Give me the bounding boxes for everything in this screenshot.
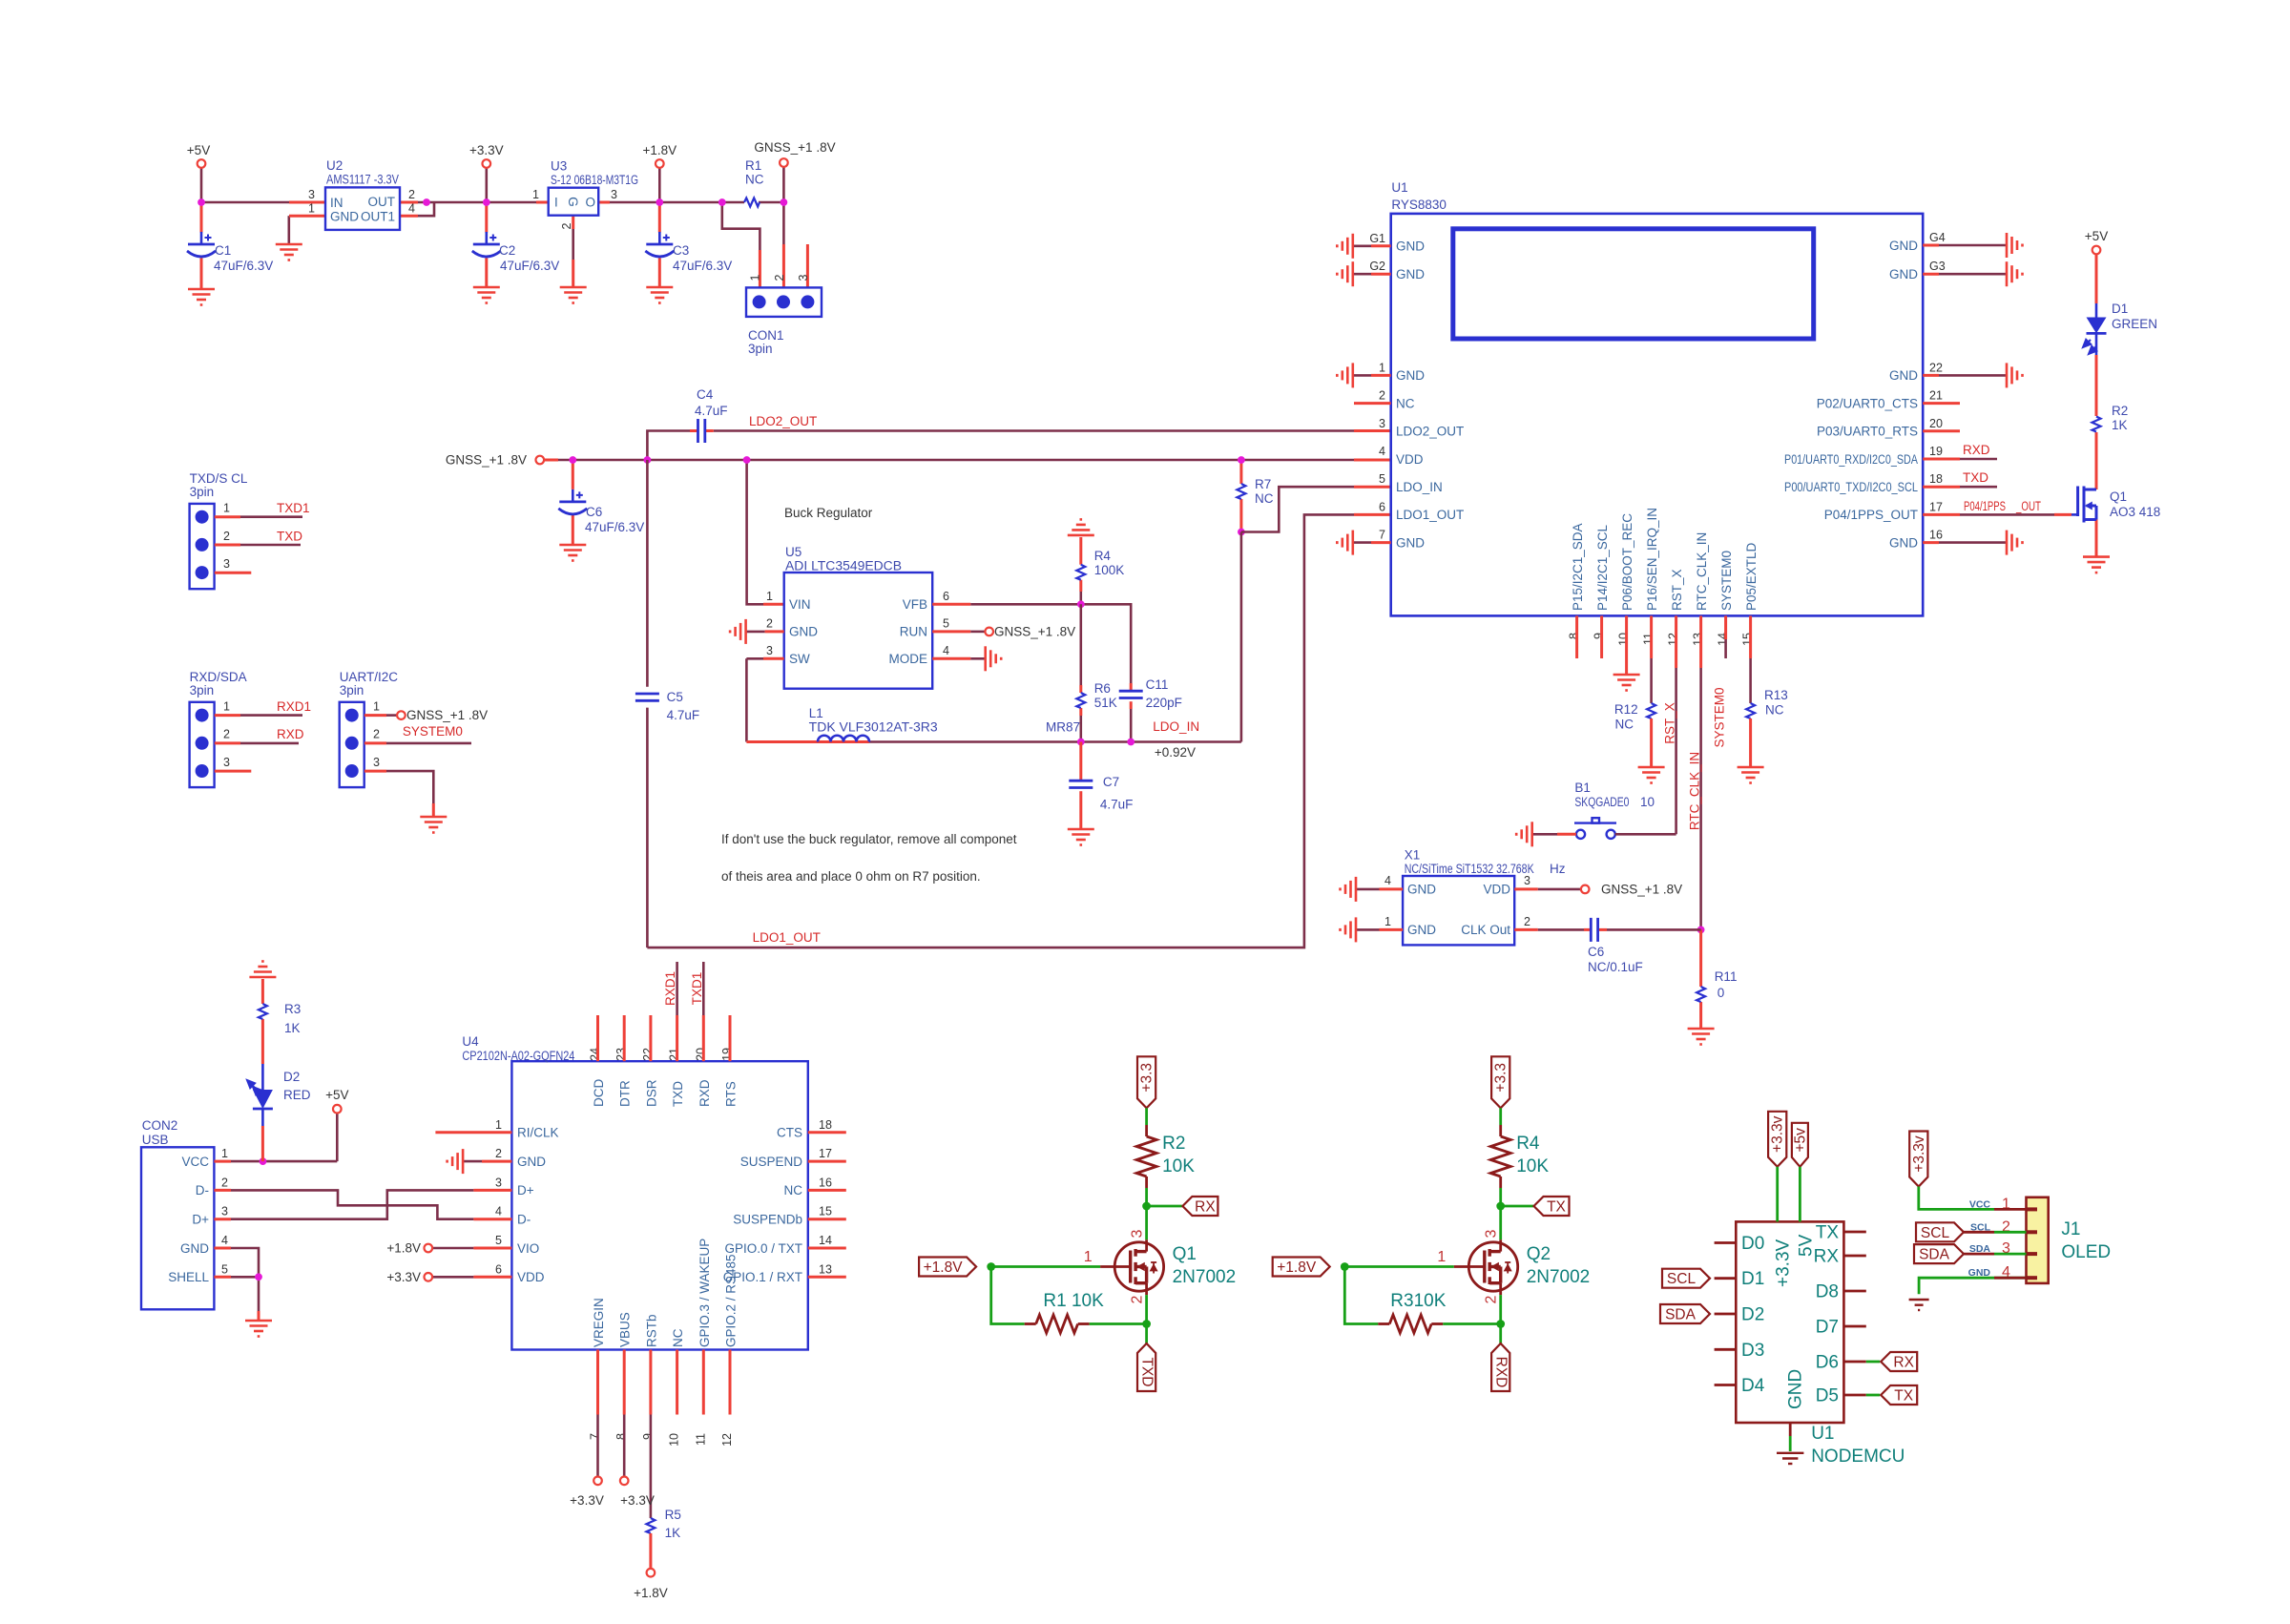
svg-text:TXD1: TXD1	[277, 501, 310, 515]
svg-text:SKQGADE0: SKQGADE0	[1574, 795, 1629, 809]
svg-text:17: 17	[819, 1147, 832, 1160]
svg-text:D8: D8	[1816, 1282, 1839, 1302]
svg-text:+1.8V: +1.8V	[924, 1260, 964, 1276]
svg-text:RX: RX	[1893, 1355, 1914, 1371]
svg-text:AMS1117 -3.3V: AMS1117 -3.3V	[326, 173, 399, 187]
svg-text:R2: R2	[1162, 1134, 1185, 1154]
svg-text:R2: R2	[2112, 404, 2128, 418]
svg-text:NC: NC	[1615, 717, 1634, 731]
svg-text:LDO2_OUT: LDO2_OUT	[1396, 425, 1464, 439]
svg-text:6: 6	[943, 590, 949, 603]
svg-text:8: 8	[614, 1433, 628, 1440]
svg-text:RTS: RTS	[724, 1081, 739, 1107]
svg-text:SHELL: SHELL	[168, 1270, 209, 1284]
svg-text:D1: D1	[1741, 1269, 1764, 1289]
svg-text:SYSTEM0: SYSTEM0	[1719, 551, 1734, 611]
svg-text:P03/UART0_RTS: P03/UART0_RTS	[1817, 425, 1918, 439]
svg-text:4: 4	[1379, 445, 1385, 458]
svg-text:15: 15	[819, 1205, 832, 1218]
svg-text:GNSS_+1 .8V: GNSS_+1 .8V	[1601, 882, 1682, 896]
svg-text:1K: 1K	[284, 1021, 301, 1035]
svg-text:GND: GND	[1396, 239, 1425, 254]
svg-text:+3.3: +3.3	[1139, 1063, 1155, 1093]
svg-text:RXD: RXD	[277, 727, 304, 741]
svg-text:3pin: 3pin	[190, 485, 215, 499]
svg-text:1: 1	[532, 188, 539, 201]
svg-text:GPIO.0 / TXT: GPIO.0 / TXT	[724, 1241, 802, 1256]
svg-text:S-12 06B18-M3T1G: S-12 06B18-M3T1G	[551, 173, 638, 187]
svg-text:5: 5	[1379, 472, 1385, 486]
svg-text:GNSS_+1 .8V: GNSS_+1 .8V	[446, 453, 527, 468]
svg-text:GND: GND	[180, 1241, 209, 1256]
svg-text:6: 6	[495, 1262, 502, 1276]
svg-text:51K: 51K	[1094, 696, 1117, 710]
svg-text:RST_X: RST_X	[1670, 569, 1684, 611]
svg-text:3: 3	[1524, 874, 1530, 887]
svg-text:RXD/SDA: RXD/SDA	[190, 670, 247, 684]
svg-text:1: 1	[221, 1147, 228, 1160]
svg-text:100K: 100K	[1094, 563, 1125, 577]
svg-text:U2: U2	[326, 158, 343, 173]
svg-text:2N7002: 2N7002	[1527, 1267, 1591, 1287]
svg-text:3pin: 3pin	[340, 683, 364, 697]
svg-text:NC: NC	[671, 1328, 685, 1347]
svg-text:D-: D-	[517, 1213, 531, 1227]
svg-text:NC: NC	[784, 1183, 803, 1197]
svg-text:220pF: 220pF	[1146, 696, 1182, 710]
svg-text:RI/CLK: RI/CLK	[517, 1126, 559, 1140]
svg-text:3: 3	[221, 1205, 228, 1218]
svg-text:3: 3	[611, 188, 617, 201]
svg-text:13: 13	[1692, 633, 1705, 646]
svg-text:2: 2	[1379, 389, 1385, 403]
svg-text:13: 13	[819, 1262, 832, 1276]
svg-text:GND: GND	[1396, 368, 1425, 383]
svg-text:D-: D-	[196, 1183, 209, 1197]
svg-text:U5: U5	[785, 545, 801, 559]
svg-text:+3.3V: +3.3V	[469, 143, 504, 157]
svg-text:4: 4	[1384, 874, 1391, 887]
svg-text:RST_X: RST_X	[1663, 702, 1677, 744]
svg-text:NC/SiTime SiT1532 32.768K: NC/SiTime SiT1532 32.768K	[1405, 862, 1534, 876]
svg-text:1: 1	[223, 699, 230, 713]
svg-text:GND: GND	[330, 210, 359, 224]
svg-text:I: I	[554, 196, 558, 210]
svg-text:20: 20	[694, 1048, 707, 1061]
svg-text:AO3 418: AO3 418	[2110, 505, 2160, 519]
svg-text:VIN: VIN	[789, 597, 811, 612]
svg-text:C2: C2	[499, 243, 515, 258]
svg-text:R1 10K: R1 10K	[1043, 1291, 1104, 1311]
svg-text:RXD: RXD	[1493, 1357, 1509, 1388]
svg-text:2: 2	[221, 1176, 228, 1189]
svg-text:Q2: Q2	[1527, 1244, 1551, 1264]
svg-text:9: 9	[641, 1433, 655, 1440]
svg-text:12: 12	[720, 1433, 734, 1447]
svg-text:2: 2	[223, 530, 230, 543]
svg-text:P02/UART0_CTS: P02/UART0_CTS	[1817, 396, 1918, 410]
svg-text:VIO: VIO	[517, 1241, 539, 1256]
svg-text:G3: G3	[1929, 260, 1946, 273]
svg-text:RXD1: RXD1	[663, 971, 677, 1006]
svg-text:SCL: SCL	[1921, 1225, 1950, 1241]
svg-text:+3.3V: +3.3V	[620, 1493, 655, 1508]
svg-text:TXD: TXD	[1139, 1358, 1155, 1387]
svg-text:3: 3	[223, 557, 230, 571]
svg-text:LDO_IN: LDO_IN	[1153, 719, 1199, 734]
svg-text:SDA: SDA	[1919, 1247, 1950, 1263]
svg-text:24: 24	[589, 1048, 602, 1061]
svg-text:LDO1_OUT: LDO1_OUT	[753, 930, 821, 945]
svg-text:TXD1: TXD1	[690, 972, 704, 1006]
svg-text:+5V: +5V	[187, 143, 210, 157]
svg-text:R7: R7	[1255, 477, 1271, 491]
svg-text:1: 1	[223, 502, 230, 515]
svg-text:ADI LTC3549EDCB: ADI LTC3549EDCB	[785, 559, 902, 573]
svg-text:Q1: Q1	[2110, 489, 2127, 504]
svg-text:4.7uF: 4.7uF	[1100, 798, 1134, 812]
svg-text:R12: R12	[1614, 702, 1638, 717]
svg-text:16: 16	[819, 1176, 832, 1189]
svg-text:+5v: +5v	[1792, 1128, 1808, 1153]
svg-text:P15/I2C1_SDA: P15/I2C1_SDA	[1571, 523, 1585, 611]
svg-text:1: 1	[373, 699, 380, 713]
svg-text:10: 10	[1640, 795, 1655, 809]
svg-text:5: 5	[495, 1234, 502, 1247]
svg-text:P14/I2C1_SCL: P14/I2C1_SCL	[1595, 524, 1610, 611]
svg-text:D6: D6	[1816, 1353, 1839, 1373]
svg-text:47uF/6.3V: 47uF/6.3V	[500, 259, 559, 273]
svg-text:4: 4	[408, 202, 415, 216]
svg-text:NC: NC	[1255, 491, 1274, 506]
svg-text:D+: D+	[517, 1183, 534, 1197]
svg-text:R4: R4	[1094, 549, 1112, 563]
svg-text:RTC_CLK_IN: RTC_CLK_IN	[1688, 752, 1702, 830]
svg-text:2: 2	[1129, 1295, 1145, 1303]
svg-text:LDO2_OUT: LDO2_OUT	[749, 414, 817, 428]
svg-text:R5: R5	[665, 1508, 681, 1522]
svg-text:U1: U1	[1391, 180, 1407, 195]
svg-text:+3.3v: +3.3v	[1911, 1135, 1927, 1173]
svg-text:3pin: 3pin	[748, 342, 773, 356]
svg-text:U4: U4	[462, 1034, 479, 1049]
svg-text:RXD: RXD	[1963, 443, 1990, 457]
svg-text:P00/UART0_TXD/I2C0_SCL: P00/UART0_TXD/I2C0_SCL	[1784, 480, 1918, 494]
svg-text:VDD: VDD	[517, 1270, 545, 1284]
svg-text:DCD: DCD	[592, 1079, 606, 1107]
svg-text:TXD: TXD	[1963, 470, 1988, 485]
svg-text:3: 3	[797, 274, 810, 281]
svg-text:4: 4	[221, 1234, 228, 1247]
svg-text:1K: 1K	[665, 1526, 681, 1540]
svg-text:P01/UART0_RXD/I2C0_SDA: P01/UART0_RXD/I2C0_SDA	[1784, 452, 1918, 467]
svg-text:CON1: CON1	[748, 328, 784, 343]
svg-text:11: 11	[694, 1433, 707, 1446]
svg-text:0: 0	[1717, 986, 1725, 1000]
svg-text:G4: G4	[1929, 231, 1946, 244]
svg-text:17: 17	[1929, 500, 1943, 513]
svg-text:19: 19	[720, 1048, 734, 1061]
svg-text:+3.3v: +3.3v	[1770, 1115, 1786, 1153]
svg-text:R11: R11	[1715, 969, 1738, 984]
svg-text:B1: B1	[1574, 781, 1591, 795]
svg-text:9: 9	[1593, 633, 1606, 639]
svg-text:SCL: SCL	[1667, 1271, 1697, 1287]
svg-text:+1.8V: +1.8V	[386, 1241, 421, 1256]
svg-text:1: 1	[1084, 1249, 1093, 1265]
svg-text:Hz: Hz	[1550, 862, 1566, 876]
svg-text:8: 8	[1568, 633, 1581, 639]
svg-text:RYS8830: RYS8830	[1391, 198, 1447, 212]
svg-text:D2: D2	[1741, 1305, 1764, 1325]
svg-text:RTC_CLK_IN: RTC_CLK_IN	[1695, 532, 1709, 611]
svg-text:3: 3	[1379, 417, 1385, 430]
svg-text:VDD: VDD	[1483, 883, 1510, 897]
svg-text:+3.3V: +3.3V	[386, 1270, 421, 1284]
svg-text:47uF/6.3V: 47uF/6.3V	[673, 259, 732, 273]
svg-text:1: 1	[495, 1118, 502, 1132]
svg-text:2: 2	[1484, 1295, 1500, 1303]
svg-text:R1: R1	[745, 158, 761, 173]
svg-text:GNSS_+1 .8V: GNSS_+1 .8V	[754, 140, 835, 155]
svg-text:NC/0.1uF: NC/0.1uF	[1588, 960, 1643, 974]
svg-text:P04/1PPS_OUT: P04/1PPS_OUT	[1824, 508, 1918, 522]
svg-text:3: 3	[308, 188, 315, 201]
svg-text:3: 3	[373, 756, 380, 769]
svg-text:SUSPENDb: SUSPENDb	[733, 1213, 802, 1227]
svg-text:MR87: MR87	[1046, 720, 1080, 735]
svg-text:CLK Out: CLK Out	[1461, 923, 1510, 937]
svg-text:5: 5	[221, 1262, 228, 1276]
svg-text:4: 4	[943, 644, 949, 657]
svg-text:TXD/S CL: TXD/S CL	[190, 471, 248, 486]
svg-text:2: 2	[766, 617, 773, 631]
svg-text:OUT1: OUT1	[361, 210, 395, 224]
svg-text:RXD1: RXD1	[277, 699, 311, 714]
svg-text:14: 14	[1717, 633, 1730, 646]
svg-text:3: 3	[495, 1176, 502, 1189]
svg-text:P04/1PPS: P04/1PPS	[1964, 499, 2006, 513]
svg-text:GND: GND	[1889, 239, 1918, 253]
svg-text:NC: NC	[1396, 396, 1415, 410]
svg-text:C7: C7	[1103, 775, 1119, 789]
svg-text:2: 2	[1524, 915, 1530, 928]
svg-text:TX: TX	[1894, 1388, 1913, 1405]
svg-text:2N7002: 2N7002	[1173, 1267, 1237, 1287]
svg-text:1: 1	[1384, 915, 1391, 928]
svg-text:GNSS_+1 .8V: GNSS_+1 .8V	[994, 624, 1075, 638]
svg-text:12: 12	[1667, 633, 1680, 646]
svg-text:10: 10	[1617, 633, 1631, 646]
svg-text:47uF/6.3V: 47uF/6.3V	[585, 520, 644, 534]
svg-text:2: 2	[223, 728, 230, 741]
svg-text:GND: GND	[1889, 368, 1918, 383]
svg-text:MODE: MODE	[889, 652, 928, 666]
svg-text:3pin: 3pin	[190, 683, 215, 697]
svg-text:R6: R6	[1094, 681, 1111, 696]
svg-text:+1.8V: +1.8V	[642, 143, 677, 157]
svg-text:G1: G1	[1369, 232, 1385, 245]
svg-text:GND: GND	[1407, 883, 1436, 897]
svg-text:3: 3	[1484, 1229, 1500, 1238]
svg-text:IN: IN	[330, 196, 343, 210]
svg-text:2: 2	[560, 222, 573, 229]
svg-text:RSTb: RSTb	[644, 1314, 658, 1347]
svg-text:1K: 1K	[2112, 418, 2128, 432]
svg-text:X1: X1	[1405, 847, 1421, 862]
svg-text:C6: C6	[586, 505, 602, 519]
svg-text:SDA: SDA	[1665, 1307, 1697, 1323]
svg-text:C11: C11	[1146, 677, 1169, 692]
svg-text:DTR: DTR	[618, 1080, 633, 1107]
svg-text:21: 21	[1929, 389, 1943, 403]
svg-text:GREEN: GREEN	[2112, 317, 2157, 331]
svg-text:3: 3	[766, 644, 773, 657]
svg-text:+1.8V: +1.8V	[634, 1586, 668, 1600]
svg-text:D7: D7	[1816, 1318, 1839, 1338]
svg-text:GPIO.2 / RS485: GPIO.2 / RS485	[724, 1254, 739, 1347]
svg-text:LDO1_OUT: LDO1_OUT	[1396, 508, 1464, 522]
svg-text:CON2: CON2	[142, 1118, 178, 1133]
svg-text:2: 2	[408, 188, 415, 201]
svg-text:D1: D1	[2112, 302, 2128, 316]
svg-text:3: 3	[223, 756, 230, 769]
svg-text:GND: GND	[1786, 1369, 1806, 1409]
svg-text:+3.3V: +3.3V	[1774, 1239, 1794, 1287]
svg-text:TX: TX	[1816, 1223, 1840, 1243]
svg-text:of theis area and place 0 ohm: of theis area and place 0 ohm on R7 posi…	[721, 869, 981, 884]
svg-text:1: 1	[749, 274, 762, 281]
svg-text:D0: D0	[1741, 1234, 1764, 1254]
svg-text:RX: RX	[1195, 1199, 1216, 1216]
svg-text:RUN: RUN	[900, 625, 927, 639]
svg-text:GND: GND	[1407, 923, 1436, 937]
svg-text:TXD: TXD	[277, 529, 302, 543]
svg-text:P05/EXTLD: P05/EXTLD	[1744, 542, 1759, 611]
svg-text:1: 1	[1379, 361, 1385, 374]
svg-text:RX: RX	[1814, 1247, 1840, 1267]
svg-text:R13: R13	[1764, 688, 1788, 702]
svg-text:O: O	[586, 196, 596, 210]
svg-text:GPIO.3 / WAKEUP: GPIO.3 / WAKEUP	[697, 1239, 712, 1347]
svg-text:+5V: +5V	[325, 1088, 348, 1102]
svg-text:TXD: TXD	[671, 1081, 685, 1107]
svg-text:NODEMCU: NODEMCU	[1811, 1447, 1905, 1467]
svg-text:3: 3	[1129, 1229, 1145, 1238]
svg-text:1: 1	[308, 202, 315, 216]
svg-text:U3: U3	[551, 159, 567, 174]
svg-text:D4: D4	[1741, 1376, 1765, 1396]
svg-text:14: 14	[819, 1234, 832, 1247]
svg-text:DSR: DSR	[644, 1079, 658, 1107]
svg-text:1: 1	[766, 590, 773, 603]
svg-text:P16/SEN_IRQ_IN: P16/SEN_IRQ_IN	[1645, 508, 1659, 611]
svg-text:D3: D3	[1741, 1341, 1764, 1361]
svg-text:R4: R4	[1516, 1134, 1540, 1154]
svg-text:LDO_IN: LDO_IN	[1396, 480, 1443, 494]
svg-text:+3.3: +3.3	[1493, 1063, 1509, 1093]
svg-text:C1: C1	[215, 243, 231, 258]
svg-text:19: 19	[1929, 445, 1943, 458]
svg-text:VCC: VCC	[181, 1155, 209, 1169]
svg-text:If don't use the buck regulato: If don't use the buck regulator, remove …	[721, 832, 1017, 846]
svg-text:10K: 10K	[1162, 1156, 1195, 1176]
svg-text:GNSS_+1 .8V: GNSS_+1 .8V	[406, 708, 488, 722]
svg-text:+0.92V: +0.92V	[1155, 745, 1196, 760]
svg-text:47uF/6.3V: 47uF/6.3V	[214, 259, 273, 273]
svg-text:TX: TX	[1547, 1199, 1566, 1216]
svg-text:+3.3V: +3.3V	[570, 1493, 604, 1508]
svg-text:10: 10	[668, 1433, 681, 1447]
svg-text:CP2102N-A02-GQFN24: CP2102N-A02-GQFN24	[462, 1049, 574, 1063]
svg-text:22: 22	[1929, 361, 1943, 374]
svg-text:11: 11	[1642, 633, 1655, 645]
svg-text:15: 15	[1741, 633, 1755, 646]
svg-text:2: 2	[373, 728, 380, 741]
svg-text:Q1: Q1	[1173, 1244, 1197, 1264]
svg-text:Buck Regulator: Buck Regulator	[784, 506, 873, 520]
svg-text:18: 18	[1929, 472, 1943, 486]
svg-text:20: 20	[1929, 417, 1943, 430]
svg-text:+1.8V: +1.8V	[1277, 1260, 1317, 1276]
svg-text:GND: GND	[789, 625, 818, 639]
svg-text:22: 22	[641, 1048, 655, 1061]
svg-text:P06/BOOT_REC: P06/BOOT_REC	[1620, 513, 1634, 611]
svg-text:L1: L1	[809, 706, 823, 720]
svg-text:5: 5	[943, 617, 949, 631]
svg-text:7: 7	[1379, 529, 1385, 542]
svg-text:U1: U1	[1811, 1424, 1834, 1444]
svg-text:SW: SW	[789, 652, 810, 666]
svg-text:1: 1	[1437, 1249, 1446, 1265]
svg-text:4.7uF: 4.7uF	[667, 708, 700, 722]
svg-text:C5: C5	[667, 690, 683, 704]
svg-text:GND: GND	[1889, 267, 1918, 281]
svg-text:23: 23	[614, 1048, 628, 1061]
svg-text:OUT: OUT	[368, 195, 396, 209]
svg-text:UART/I2C: UART/I2C	[340, 670, 399, 684]
svg-text:R310K: R310K	[1390, 1291, 1446, 1311]
svg-text:D2: D2	[283, 1070, 300, 1084]
svg-text:GND: GND	[1396, 267, 1425, 281]
svg-text:D5: D5	[1816, 1386, 1839, 1406]
svg-text:VFB: VFB	[903, 597, 927, 612]
svg-text:NC: NC	[1765, 702, 1784, 717]
svg-text:NC: NC	[745, 173, 764, 187]
svg-text:SUSPEND: SUSPEND	[740, 1155, 803, 1169]
svg-text:VREGIN: VREGIN	[592, 1298, 606, 1347]
svg-text:VBUS: VBUS	[618, 1312, 633, 1347]
svg-text:18: 18	[819, 1118, 832, 1132]
svg-text:TDK VLF3012AT-3R3: TDK VLF3012AT-3R3	[809, 720, 938, 735]
svg-text:SYSTEM0: SYSTEM0	[1713, 687, 1727, 747]
svg-text:GND: GND	[517, 1155, 546, 1169]
svg-text:C6: C6	[1588, 945, 1604, 959]
svg-text:G2: G2	[1369, 260, 1385, 273]
svg-text:SYSTEM0: SYSTEM0	[403, 724, 463, 739]
svg-text:21: 21	[668, 1048, 681, 1061]
svg-text:7: 7	[589, 1433, 602, 1440]
svg-text:R3: R3	[284, 1002, 301, 1016]
svg-text:VDD: VDD	[1396, 452, 1424, 467]
svg-text:C4: C4	[697, 387, 714, 402]
svg-text:6: 6	[1379, 500, 1385, 513]
svg-text:10K: 10K	[1516, 1156, 1549, 1176]
svg-text:CTS: CTS	[777, 1126, 802, 1140]
svg-text:4.7uF: 4.7uF	[695, 404, 728, 418]
svg-text:4: 4	[495, 1205, 502, 1218]
svg-text:G: G	[566, 197, 580, 207]
